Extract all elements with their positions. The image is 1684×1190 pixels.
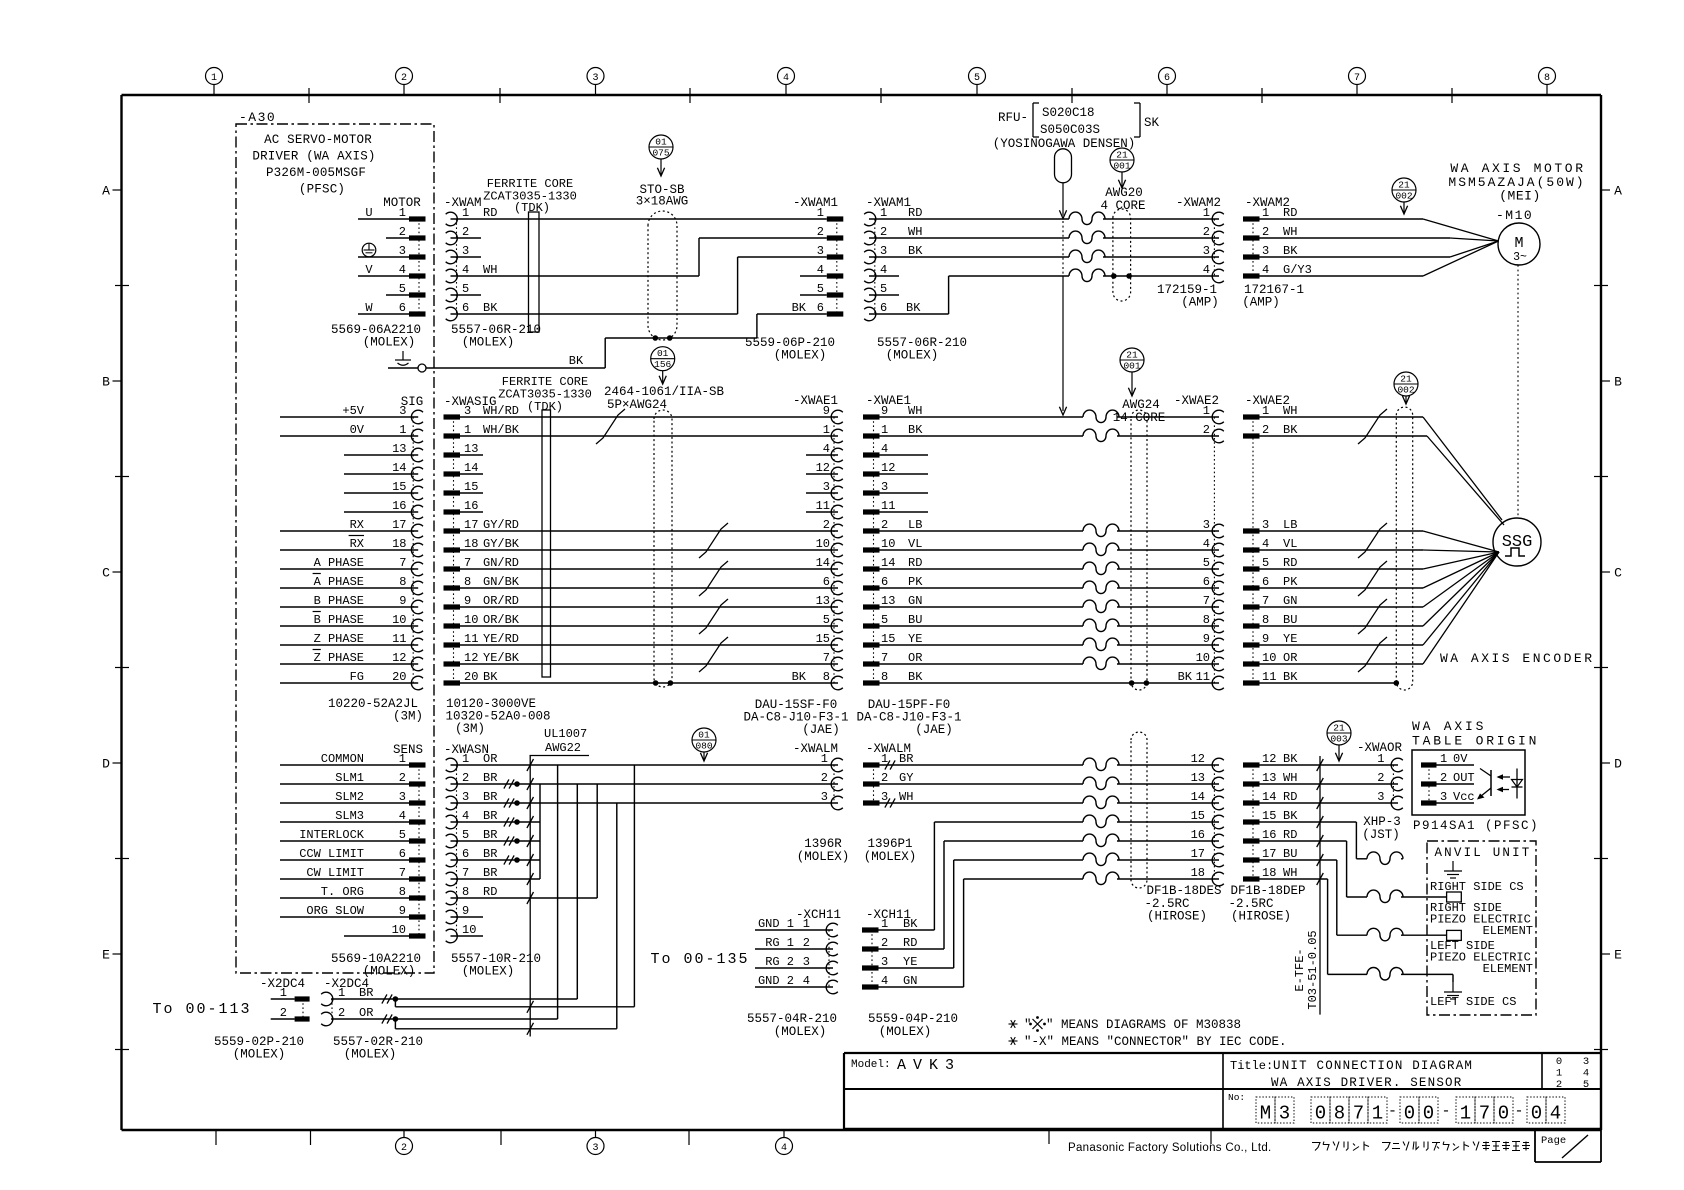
svg-text:2: 2 — [881, 771, 888, 785]
svg-text:1396P1: 1396P1 — [867, 837, 912, 851]
svg-text:10: 10 — [464, 613, 478, 627]
svg-text:OR: OR — [908, 651, 922, 665]
svg-text:1: 1 — [1203, 206, 1210, 220]
svg-text:AWG20: AWG20 — [1105, 186, 1143, 200]
svg-text:BK: BK — [1283, 423, 1298, 437]
svg-text:13: 13 — [464, 442, 478, 456]
svg-text:4: 4 — [1203, 537, 1210, 551]
svg-text:SLM1: SLM1 — [335, 771, 364, 785]
svg-text:6: 6 — [1262, 575, 1269, 589]
svg-text:WH: WH — [908, 225, 922, 239]
svg-text:3: 3 — [1203, 518, 1210, 532]
svg-text:WA AXIS MOTOR: WA AXIS MOTOR — [1450, 161, 1585, 176]
svg-text:2: 2 — [462, 771, 469, 785]
svg-text:2: 2 — [817, 225, 824, 239]
svg-text:14: 14 — [392, 461, 406, 475]
svg-text:001: 001 — [1113, 161, 1130, 172]
svg-text:C: C — [1614, 566, 1622, 581]
svg-text:6: 6 — [817, 301, 824, 315]
svg-text:PK: PK — [1283, 575, 1298, 589]
svg-text:T. ORG: T. ORG — [321, 885, 364, 899]
svg-text:11: 11 — [1262, 670, 1276, 684]
svg-text:OR: OR — [1283, 651, 1297, 665]
svg-text:BK: BK — [906, 301, 921, 315]
svg-text:BR: BR — [483, 809, 497, 823]
svg-text:-: - — [1514, 1103, 1523, 1120]
svg-text:UL1007: UL1007 — [544, 727, 587, 741]
svg-text:FG: FG — [350, 670, 364, 684]
svg-text:BU: BU — [1283, 847, 1297, 861]
svg-text:3: 3 — [592, 1143, 598, 1154]
svg-text:Z PHASE: Z PHASE — [314, 651, 364, 665]
svg-text:RD: RD — [1283, 828, 1297, 842]
svg-text:1: 1 — [1262, 206, 1269, 220]
svg-text:10: 10 — [1196, 651, 1210, 665]
svg-text:(JAE): (JAE) — [915, 723, 953, 737]
svg-text:8: 8 — [462, 885, 469, 899]
svg-text:CCW LIMIT: CCW LIMIT — [299, 847, 364, 861]
svg-text:10: 10 — [392, 923, 406, 937]
svg-text:"-X" MEANS "CONNECTOR" BY IEC: "-X" MEANS "CONNECTOR" BY IEC CODE. — [1024, 1035, 1287, 1049]
svg-text:BR: BR — [483, 771, 497, 785]
svg-text:01: 01 — [698, 730, 710, 741]
svg-text:16: 16 — [464, 499, 478, 513]
svg-text:17: 17 — [392, 518, 406, 532]
svg-text:" MEANS DIAGRAMS OF M30838: " MEANS DIAGRAMS OF M30838 — [1046, 1018, 1241, 1032]
svg-text:A: A — [1614, 184, 1622, 199]
svg-text:4: 4 — [881, 974, 888, 988]
svg-text:BU: BU — [908, 613, 922, 627]
svg-text:11: 11 — [881, 499, 895, 513]
svg-text:01: 01 — [657, 348, 669, 359]
svg-text:2: 2 — [881, 936, 888, 950]
svg-text:DRIVER (WA AXIS): DRIVER (WA AXIS) — [252, 150, 375, 164]
svg-text:16: 16 — [1191, 828, 1205, 842]
svg-text:1: 1 — [1377, 752, 1384, 766]
svg-text:8: 8 — [881, 670, 888, 684]
svg-text:14: 14 — [1191, 790, 1205, 804]
svg-text:9: 9 — [462, 904, 469, 918]
svg-text:(MOLEX): (MOLEX) — [879, 1025, 932, 1039]
svg-text:10: 10 — [462, 923, 476, 937]
svg-text:S050C03S: S050C03S — [1040, 123, 1100, 137]
svg-text:001: 001 — [1123, 361, 1140, 372]
svg-text:8: 8 — [1334, 1103, 1345, 1125]
svg-text:14: 14 — [816, 556, 830, 570]
svg-text:0: 0 — [1556, 1056, 1562, 1068]
svg-text:2: 2 — [338, 1006, 345, 1020]
svg-text:9: 9 — [1262, 632, 1269, 646]
svg-text:-: - — [1441, 1103, 1450, 1120]
svg-text:1: 1 — [881, 917, 888, 931]
svg-text:15: 15 — [392, 480, 406, 494]
svg-text:ANVIL UNIT: ANVIL UNIT — [1434, 846, 1531, 860]
svg-text:1: 1 — [1460, 1103, 1471, 1125]
svg-text:-A30: -A30 — [239, 110, 276, 125]
svg-text:(MOLEX): (MOLEX) — [363, 336, 416, 350]
svg-text:B: B — [1614, 375, 1622, 390]
svg-text:-: - — [1388, 1103, 1397, 1120]
svg-text:21: 21 — [1126, 350, 1138, 361]
svg-text:1: 1 — [823, 423, 830, 437]
svg-text:7: 7 — [823, 651, 830, 665]
svg-text:4: 4 — [1262, 537, 1269, 551]
svg-text:D: D — [1614, 757, 1622, 772]
svg-text:3: 3 — [1377, 790, 1384, 804]
svg-text:2: 2 — [401, 73, 407, 84]
svg-text:YE: YE — [908, 632, 922, 646]
svg-text:5: 5 — [462, 828, 469, 842]
svg-text:Model:: Model: — [851, 1059, 891, 1071]
svg-text:4: 4 — [803, 974, 810, 988]
svg-text:ELEMENT: ELEMENT — [1483, 924, 1533, 938]
svg-text:WH: WH — [483, 263, 497, 277]
svg-text:(AMP): (AMP) — [1181, 296, 1219, 310]
svg-text:15: 15 — [816, 632, 830, 646]
svg-text:GN: GN — [903, 974, 917, 988]
svg-text:1: 1 — [399, 206, 406, 220]
svg-text:5: 5 — [399, 828, 406, 842]
svg-text:3: 3 — [821, 790, 828, 804]
svg-text:10: 10 — [881, 537, 895, 551]
svg-text:Z PHASE: Z PHASE — [314, 632, 364, 646]
svg-text:VL: VL — [908, 537, 922, 551]
svg-text:V: V — [365, 263, 373, 277]
svg-text:0: 0 — [1531, 1103, 1542, 1125]
svg-text:3: 3 — [881, 790, 888, 804]
svg-text:ORG SLOW: ORG SLOW — [306, 904, 364, 918]
svg-text:9: 9 — [1203, 632, 1210, 646]
svg-text:(JST): (JST) — [1362, 828, 1400, 842]
svg-text:RD: RD — [908, 556, 922, 570]
svg-text:(MOLEX): (MOLEX) — [363, 965, 416, 979]
svg-text:D: D — [102, 757, 110, 772]
svg-text:(3M): (3M) — [393, 710, 423, 724]
svg-text:14 CORE: 14 CORE — [1113, 411, 1166, 425]
svg-text:4: 4 — [783, 73, 789, 84]
svg-text:0: 0 — [1498, 1103, 1509, 1125]
svg-text:10: 10 — [392, 613, 406, 627]
svg-text:OR/BK: OR/BK — [483, 613, 520, 627]
svg-text:0: 0 — [1404, 1103, 1415, 1125]
svg-text:Page: Page — [1541, 1135, 1566, 1147]
svg-text:BK: BK — [1178, 670, 1193, 684]
svg-text:(MOLEX): (MOLEX) — [344, 1048, 397, 1062]
svg-text:8: 8 — [1262, 613, 1269, 627]
svg-text:M: M — [1260, 1103, 1271, 1125]
svg-text:WA AXIS DRIVER. SENSOR: WA AXIS DRIVER. SENSOR — [1271, 1076, 1462, 1090]
svg-text:OR: OR — [359, 1006, 373, 1020]
svg-text:OR/RD: OR/RD — [483, 594, 519, 608]
svg-text:B PHASE: B PHASE — [314, 613, 364, 627]
svg-text:7: 7 — [881, 651, 888, 665]
svg-text:4: 4 — [881, 442, 888, 456]
svg-text:1: 1 — [399, 423, 406, 437]
svg-text:18: 18 — [464, 537, 478, 551]
svg-text:1: 1 — [399, 752, 406, 766]
svg-text:8: 8 — [1544, 73, 1550, 84]
svg-text:P914SA1 (PFSC): P914SA1 (PFSC) — [1413, 819, 1539, 833]
svg-text:XHP-3: XHP-3 — [1363, 815, 1401, 829]
svg-text:G/Y3: G/Y3 — [1283, 263, 1312, 277]
svg-text:AC SERVO-MOTOR: AC SERVO-MOTOR — [264, 133, 372, 147]
svg-text:SENS: SENS — [393, 743, 423, 757]
svg-text:TABLE ORIGIN: TABLE ORIGIN — [1412, 734, 1539, 749]
svg-text:AWG24: AWG24 — [1122, 398, 1160, 412]
svg-text:1: 1 — [880, 206, 887, 220]
svg-text:BR: BR — [483, 828, 497, 842]
svg-text:WH: WH — [1283, 225, 1297, 239]
svg-text:YE: YE — [903, 955, 917, 969]
svg-text:2: 2 — [823, 518, 830, 532]
svg-text:6: 6 — [462, 847, 469, 861]
svg-text:3×18AWG: 3×18AWG — [636, 195, 689, 209]
svg-text:003: 003 — [1330, 734, 1347, 745]
svg-text:4: 4 — [817, 263, 824, 277]
svg-text:6: 6 — [462, 301, 469, 315]
svg-text:4: 4 — [1550, 1103, 1561, 1125]
svg-text:3: 3 — [803, 955, 810, 969]
svg-text:1: 1 — [817, 206, 824, 220]
svg-text:3: 3 — [1262, 518, 1269, 532]
svg-text:RG 1: RG 1 — [765, 936, 794, 950]
svg-text:RIGHT SIDE CS: RIGHT SIDE CS — [1430, 880, 1524, 894]
svg-text:3: 3 — [881, 955, 888, 969]
svg-text:BK: BK — [908, 670, 923, 684]
svg-text:21: 21 — [1398, 180, 1410, 191]
svg-text:BK: BK — [483, 670, 498, 684]
svg-text:3: 3 — [1440, 790, 1447, 804]
svg-text:GY/RD: GY/RD — [483, 518, 519, 532]
svg-text:1: 1 — [803, 917, 810, 931]
svg-text:+5V: +5V — [342, 404, 364, 418]
svg-text:2: 2 — [1203, 225, 1210, 239]
svg-text:E: E — [102, 948, 110, 963]
svg-text:5: 5 — [399, 282, 406, 296]
svg-text:3: 3 — [399, 404, 406, 418]
svg-text:GY: GY — [899, 771, 913, 785]
svg-text:2: 2 — [880, 225, 887, 239]
svg-text:7: 7 — [1354, 73, 1360, 84]
svg-text:5: 5 — [462, 282, 469, 296]
svg-text:12: 12 — [816, 461, 830, 475]
svg-text:17: 17 — [464, 518, 478, 532]
svg-text:4: 4 — [781, 1143, 787, 1154]
svg-text:7: 7 — [399, 556, 406, 570]
svg-text:5: 5 — [1262, 556, 1269, 570]
svg-text:4: 4 — [1583, 1068, 1589, 1080]
svg-text:8: 8 — [823, 670, 830, 684]
svg-text:DF1B-18DEP: DF1B-18DEP — [1230, 884, 1305, 898]
svg-text:2: 2 — [399, 771, 406, 785]
svg-text:(MOLEX): (MOLEX) — [864, 850, 917, 864]
svg-text:3: 3 — [399, 790, 406, 804]
svg-text:2: 2 — [399, 225, 406, 239]
svg-text:A: A — [102, 184, 110, 199]
svg-text:14: 14 — [881, 556, 895, 570]
svg-text:-XWAE2: -XWAE2 — [1174, 394, 1219, 408]
svg-text:WH: WH — [899, 790, 913, 804]
svg-text:(MOLEX): (MOLEX) — [774, 349, 827, 363]
svg-text:16: 16 — [392, 499, 406, 513]
svg-text:6: 6 — [399, 301, 406, 315]
svg-text:2: 2 — [1203, 423, 1210, 437]
svg-text:6: 6 — [880, 301, 887, 315]
svg-text:11: 11 — [1196, 670, 1210, 684]
svg-text:1: 1 — [338, 986, 345, 1000]
svg-text:13: 13 — [881, 594, 895, 608]
svg-text:BK: BK — [1283, 244, 1298, 258]
svg-text:-XWALM: -XWALM — [793, 742, 838, 756]
svg-text:14: 14 — [464, 461, 478, 475]
svg-text:3: 3 — [462, 244, 469, 258]
svg-text:002: 002 — [1395, 191, 1412, 202]
svg-text:3: 3 — [817, 244, 824, 258]
svg-text:1: 1 — [881, 423, 888, 437]
svg-text:9: 9 — [881, 404, 888, 418]
svg-text:C: C — [102, 566, 110, 581]
svg-text:-XWAE1: -XWAE1 — [866, 394, 911, 408]
svg-text:AWG22: AWG22 — [545, 741, 581, 755]
svg-text:No:: No: — [1228, 1092, 1245, 1103]
svg-text:RD: RD — [903, 936, 917, 950]
svg-text:4: 4 — [823, 442, 830, 456]
svg-text:15: 15 — [464, 480, 478, 494]
svg-text:8: 8 — [464, 575, 471, 589]
svg-text:1: 1 — [280, 986, 287, 1000]
svg-text:3: 3 — [1203, 244, 1210, 258]
svg-text:8: 8 — [399, 885, 406, 899]
svg-text:12: 12 — [881, 461, 895, 475]
svg-text:080: 080 — [695, 741, 712, 752]
svg-text:BK: BK — [1283, 809, 1298, 823]
svg-text:BR: BR — [483, 790, 497, 804]
svg-text:4: 4 — [1262, 263, 1269, 277]
svg-text:-XWAM1: -XWAM1 — [866, 196, 911, 210]
svg-text:S020C18: S020C18 — [1042, 106, 1095, 120]
svg-text:LEFT SIDE CS: LEFT SIDE CS — [1430, 995, 1516, 1009]
svg-text:5559-04P-210: 5559-04P-210 — [868, 1012, 958, 1026]
svg-text:BR: BR — [899, 752, 913, 766]
svg-text:E: E — [1614, 948, 1622, 963]
svg-text:9: 9 — [399, 904, 406, 918]
svg-text:RG 2: RG 2 — [765, 955, 794, 969]
svg-text:(TDK): (TDK) — [527, 400, 563, 414]
svg-text:12: 12 — [1191, 752, 1205, 766]
svg-text:10: 10 — [1262, 651, 1276, 665]
svg-text:(TDK): (TDK) — [514, 201, 550, 215]
svg-text:20: 20 — [392, 670, 406, 684]
svg-text:4: 4 — [462, 263, 469, 277]
svg-text:4: 4 — [880, 263, 887, 277]
svg-text:3: 3 — [880, 244, 887, 258]
svg-text:075: 075 — [652, 148, 669, 159]
svg-text:1: 1 — [1556, 1068, 1562, 1080]
svg-text:12: 12 — [464, 651, 478, 665]
svg-text:Vcc: Vcc — [1453, 790, 1475, 804]
svg-text:21: 21 — [1400, 374, 1412, 385]
svg-text:5557-04R-210: 5557-04R-210 — [747, 1012, 837, 1026]
svg-text:12: 12 — [392, 651, 406, 665]
svg-text:RX: RX — [350, 518, 364, 532]
svg-text:18: 18 — [1191, 866, 1205, 880]
svg-text:21: 21 — [1116, 150, 1128, 161]
svg-text:002: 002 — [1397, 385, 1414, 396]
svg-text:WA AXIS: WA AXIS — [1412, 719, 1486, 734]
svg-text:5: 5 — [1583, 1079, 1589, 1091]
svg-text:BK: BK — [483, 301, 498, 315]
svg-text:6: 6 — [881, 575, 888, 589]
svg-text:BK: BK — [792, 670, 807, 684]
svg-text:1: 1 — [462, 206, 469, 220]
svg-text:CW LIMIT: CW LIMIT — [306, 866, 364, 880]
svg-text:7: 7 — [1353, 1103, 1364, 1125]
svg-text:B PHASE: B PHASE — [314, 594, 364, 608]
svg-text:13: 13 — [1262, 771, 1276, 785]
svg-text:RD: RD — [483, 885, 497, 899]
svg-text:4: 4 — [399, 809, 406, 823]
svg-text:OUT: OUT — [1453, 771, 1475, 785]
svg-text:2: 2 — [1262, 225, 1269, 239]
svg-text:14: 14 — [1262, 790, 1276, 804]
svg-text:12: 12 — [1262, 752, 1276, 766]
svg-text:(AMP): (AMP) — [1242, 296, 1280, 310]
svg-text:1: 1 — [821, 752, 828, 766]
svg-text:GND 2: GND 2 — [758, 974, 794, 988]
svg-text:B: B — [102, 375, 110, 390]
svg-text:T03-51-0.05: T03-51-0.05 — [1306, 930, 1320, 1009]
svg-text:2464-1061/IIA-SB: 2464-1061/IIA-SB — [604, 385, 725, 399]
svg-text:13: 13 — [392, 442, 406, 456]
svg-text:1: 1 — [1372, 1103, 1383, 1125]
svg-text:3: 3 — [1583, 1056, 1589, 1068]
svg-text:7: 7 — [1479, 1103, 1490, 1125]
svg-text:1: 1 — [881, 752, 888, 766]
svg-text:W: W — [365, 301, 373, 315]
svg-text:WH: WH — [908, 404, 922, 418]
svg-text:17: 17 — [1262, 847, 1276, 861]
svg-text:17: 17 — [1191, 847, 1205, 861]
svg-text:6: 6 — [1164, 73, 1170, 84]
svg-text:BK: BK — [792, 301, 807, 315]
svg-text:6: 6 — [823, 575, 830, 589]
svg-text:P326M-005MSGF: P326M-005MSGF — [266, 166, 366, 180]
svg-text:2: 2 — [881, 518, 888, 532]
svg-text:Title:: Title: — [1230, 1059, 1273, 1073]
svg-text:(HIROSE): (HIROSE) — [1231, 910, 1291, 924]
svg-text:15: 15 — [1262, 809, 1276, 823]
svg-text:DF1B-18DES: DF1B-18DES — [1146, 884, 1221, 898]
svg-text:RD: RD — [1283, 556, 1297, 570]
svg-text:156: 156 — [654, 359, 671, 370]
svg-text:BR: BR — [359, 986, 373, 1000]
svg-text:2: 2 — [462, 225, 469, 239]
svg-text:5: 5 — [1203, 556, 1210, 570]
svg-text:U: U — [365, 206, 372, 220]
svg-text:-M10: -M10 — [1496, 208, 1533, 223]
svg-text:VL: VL — [1283, 537, 1297, 551]
svg-text:1: 1 — [462, 752, 469, 766]
svg-text:A PHASE: A PHASE — [314, 556, 364, 570]
svg-text:1: 1 — [211, 73, 217, 84]
svg-text:SK: SK — [1144, 116, 1160, 130]
svg-text:To 00-135: To 00-135 — [650, 951, 749, 968]
svg-text:BK: BK — [908, 423, 923, 437]
svg-text:3: 3 — [1279, 1103, 1290, 1125]
svg-text:-XWAM1: -XWAM1 — [793, 196, 838, 210]
svg-text:7: 7 — [1203, 594, 1210, 608]
svg-text:BK: BK — [1283, 670, 1298, 684]
